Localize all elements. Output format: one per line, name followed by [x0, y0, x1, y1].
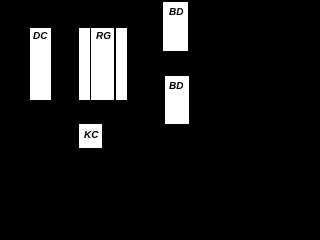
label BD upper: [169, 8, 183, 18]
block BD upper: [163, 2, 188, 51]
label KC: [84, 131, 98, 141]
block RG right bar: [116, 28, 127, 100]
block RG middle bar: [91, 28, 114, 100]
label DC: [33, 32, 47, 42]
label BD lower: [169, 82, 183, 92]
label RG: [96, 32, 111, 42]
block BD lower: [165, 76, 189, 124]
block DC (left electrode): [30, 28, 51, 100]
block KC: [79, 124, 102, 148]
block RG left bar: [79, 28, 90, 100]
